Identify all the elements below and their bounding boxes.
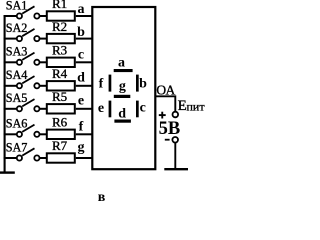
resistor R6 xyxy=(47,130,75,139)
wire minus terminal to ground xyxy=(174,143,176,170)
resistor R7 xyxy=(47,153,75,162)
svg-text:f: f xyxy=(99,77,104,92)
plus terminal xyxy=(173,112,179,118)
svg-text:R5: R5 xyxy=(52,89,67,104)
svg-text:c: c xyxy=(78,47,84,62)
wire R5 to box pin e xyxy=(76,108,92,110)
wire SA1 to R1 xyxy=(40,15,47,17)
resistor R2 xyxy=(47,34,75,43)
indicator box U1 (seven-segment display block) xyxy=(92,7,155,169)
wire SA5 to R5 xyxy=(40,108,47,110)
svg-text:SA4: SA4 xyxy=(6,68,28,82)
switch SA1 xyxy=(17,6,40,18)
resistor R3 xyxy=(47,58,75,67)
svg-text:f: f xyxy=(79,119,84,134)
svg-text:Е: Е xyxy=(178,98,187,114)
wire R2 to box pin b xyxy=(76,38,92,40)
switch SA6 xyxy=(17,125,40,137)
svg-text:пит: пит xyxy=(187,99,206,113)
svg-text:b: b xyxy=(77,25,85,40)
left common bus wire xyxy=(4,15,6,173)
wire SA6 to R6 xyxy=(40,133,47,135)
segment g bar xyxy=(114,95,131,98)
ground bar left xyxy=(0,171,15,173)
switch SA4 xyxy=(17,76,40,88)
wire bus to SA7 xyxy=(4,157,17,159)
wire SA7 to R7 xyxy=(40,157,47,159)
svg-text:d: d xyxy=(77,70,85,85)
resistor R1 xyxy=(47,11,75,20)
svg-text:a: a xyxy=(118,56,125,71)
svg-text:SA3: SA3 xyxy=(6,45,28,59)
svg-text:SA2: SA2 xyxy=(6,21,28,35)
svg-text:R2: R2 xyxy=(52,19,67,34)
wire bus to SA1 xyxy=(4,15,17,17)
switch SA3 xyxy=(17,53,40,65)
svg-text:SA6: SA6 xyxy=(6,117,28,131)
ground bar right xyxy=(164,168,188,170)
wire SA4 to R4 xyxy=(40,85,47,87)
segment b bar xyxy=(136,75,139,92)
plus sign xyxy=(159,114,166,116)
wire bus to SA2 xyxy=(4,38,17,40)
segment e bar xyxy=(109,101,112,118)
svg-text:a: a xyxy=(78,2,85,17)
svg-text:R6: R6 xyxy=(52,115,68,130)
segment c bar xyxy=(136,101,139,118)
svg-text:R7: R7 xyxy=(52,138,68,153)
svg-text:SA7: SA7 xyxy=(6,140,28,154)
svg-text:R1: R1 xyxy=(52,0,67,11)
svg-text:d: d xyxy=(118,107,126,122)
svg-text:5В: 5В xyxy=(159,119,181,139)
wire bus to SA6 xyxy=(4,133,17,135)
segment d bar xyxy=(114,120,130,123)
svg-text:c: c xyxy=(140,101,146,116)
minus terminal xyxy=(172,137,178,143)
segment a bar xyxy=(114,69,133,72)
wire SA2 to R2 xyxy=(40,38,47,40)
svg-text:g: g xyxy=(119,79,126,94)
wire R6 to box pin f xyxy=(76,133,92,135)
resistor R5 xyxy=(47,104,75,113)
svg-text:R3: R3 xyxy=(52,43,67,58)
svg-text:R4: R4 xyxy=(52,66,68,81)
minus sign xyxy=(165,139,170,141)
switch SA5 xyxy=(17,99,40,111)
svg-text:SA5: SA5 xyxy=(6,91,28,105)
wire R7 to box pin g xyxy=(76,157,92,159)
wire R4 to box pin d xyxy=(76,85,92,87)
wire SA3 to R3 xyxy=(40,61,47,63)
svg-text:g: g xyxy=(78,140,85,155)
wire bus to SA4 xyxy=(4,85,17,87)
resistor R4 xyxy=(47,81,75,90)
switch SA7 xyxy=(17,148,40,160)
wire R3 to box pin c xyxy=(76,61,92,63)
svg-text:e: e xyxy=(98,101,104,116)
switch SA2 xyxy=(17,29,40,41)
svg-text:e: e xyxy=(78,94,84,109)
svg-text:SA1: SA1 xyxy=(6,0,28,12)
svg-text:b: b xyxy=(139,77,147,92)
wire OA: box to plus terminal xyxy=(156,96,175,111)
wire R1 to box pin a xyxy=(76,15,92,17)
wire bus to SA3 xyxy=(4,61,17,63)
wire bus to SA5 xyxy=(4,108,17,110)
svg-text:в: в xyxy=(98,190,106,202)
segment f bar xyxy=(109,75,112,92)
